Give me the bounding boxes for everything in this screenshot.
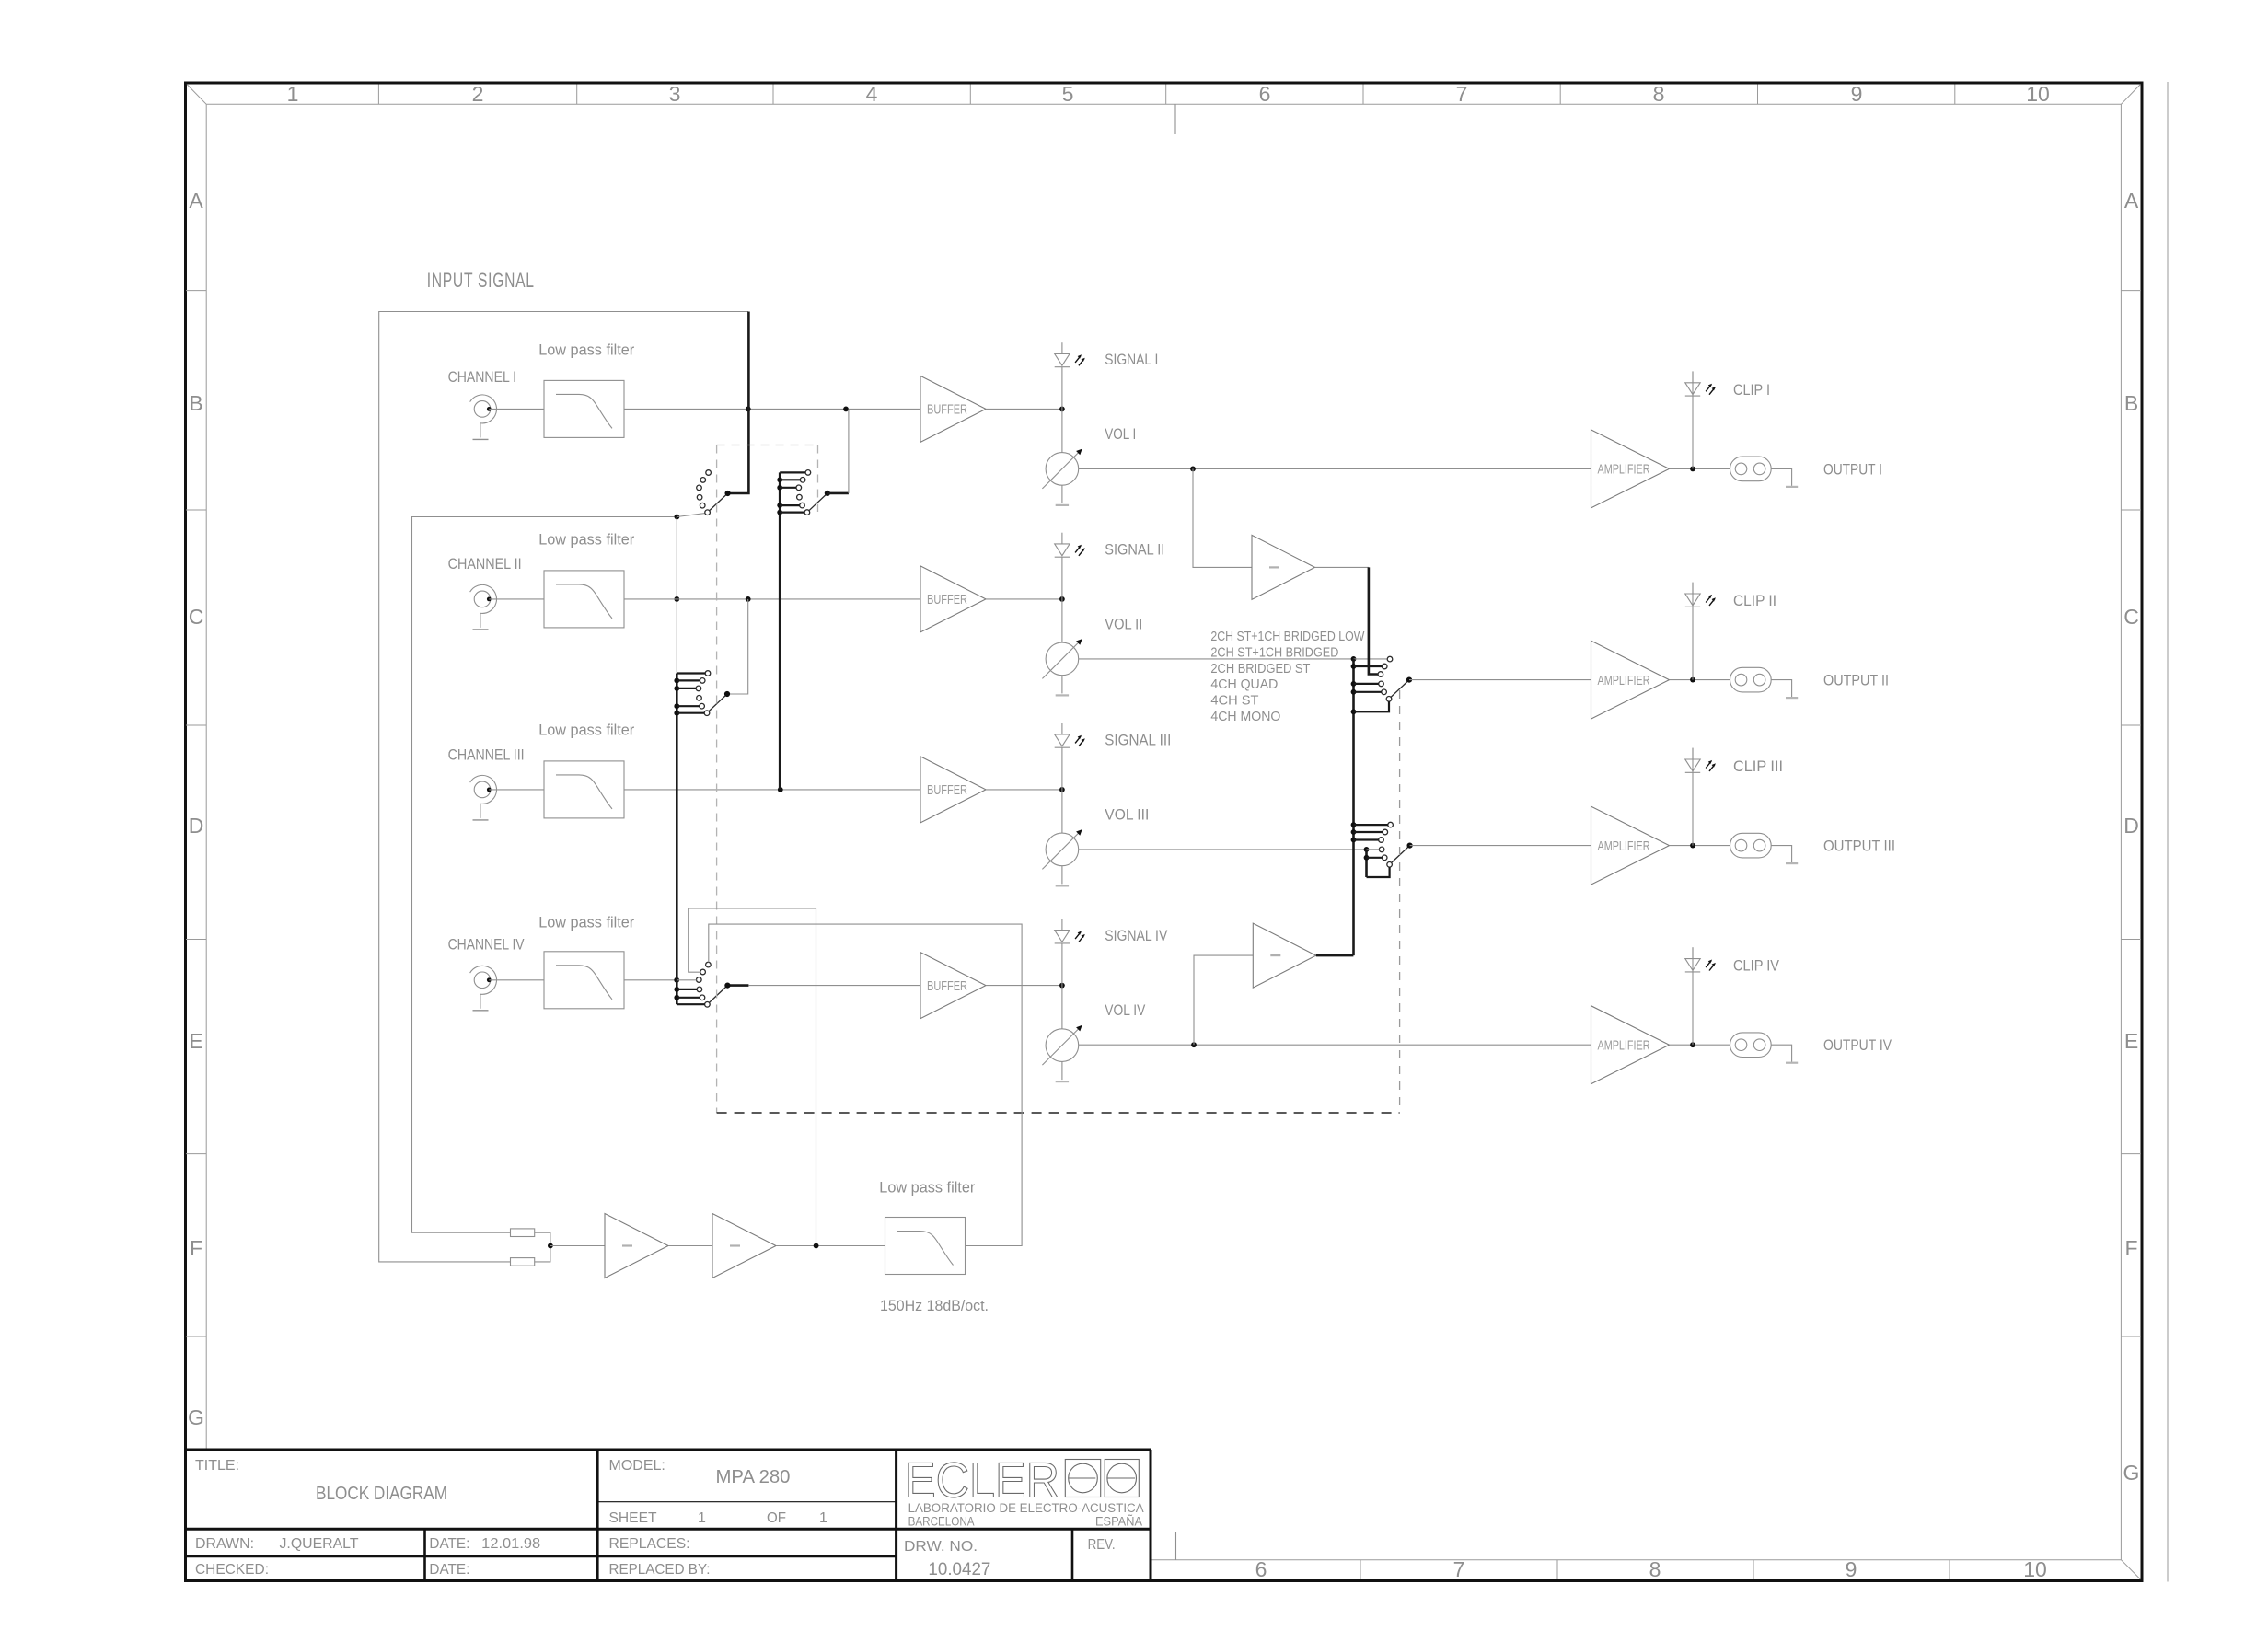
LED SIGNAL I [1055,342,1085,367]
branch S6 VOL III down [1365,850,1368,877]
stub S3 contact 6 [674,711,679,716]
svg-text:SHEET: SHEET [609,1510,657,1526]
wire S5 wiper to amplifier II [1409,679,1591,681]
sheet edge line right [2167,82,2169,1582]
wire output II to ground [1771,680,1791,698]
svg-text:1: 1 [698,1510,706,1526]
svg-text:150Hz 18dB/oct.: 150Hz 18dB/oct. [880,1298,989,1314]
svg-text:A: A [189,189,203,213]
svg-text:C: C [189,605,204,629]
svg-text:J.QUERALT: J.QUERALT [280,1536,359,1552]
wire channel II top edge to S1 contact [677,514,705,517]
stub S4 contact 3 (from channel IV filter) [677,979,696,981]
svg-text:BUFFER: BUFFER [927,979,967,994]
wire S2 wiper to channel I (stub) [827,492,849,495]
svg-text:2CH ST+1CH BRIDGED: 2CH ST+1CH BRIDGED [1210,645,1338,660]
svg-text:BUFFER: BUFFER [927,593,967,607]
svg-text:CLIP II: CLIP II [1733,593,1776,609]
svg-text:DATE:: DATE: [429,1536,469,1552]
junction amplifier III output / clip LED [1690,843,1695,849]
rotary switch S4 (buffer IV source select) contacts [697,962,712,1007]
svg-text:VOL III: VOL III [1105,806,1149,823]
resistor R2 (channel I sum) [511,1258,535,1266]
svg-text:SIGNAL I: SIGNAL I [1105,352,1158,368]
svg-text:10.0427: 10.0427 [928,1560,990,1579]
stub S2 contact 2 [777,477,782,482]
rotary switch S1 (channel I select) contacts [697,470,712,515]
wire sum node to amp C [550,1245,605,1247]
svg-text:VOL I: VOL I [1105,426,1136,443]
junction channel II wire [674,596,679,602]
stub S6 contact 1 [1351,822,1357,827]
hook S6 branch to contact 6 [1367,867,1390,877]
fold mark top centre [1174,104,1176,134]
bus mode switch (VOL II / bridge B) [1352,659,1355,955]
svg-text:2CH BRIDGED ST: 2CH BRIDGED ST [1210,662,1310,676]
svg-text:6: 6 [1259,82,1271,106]
svg-text:4CH QUAD: 4CH QUAD [1210,677,1278,692]
wire S4 wiper to buffer IV [748,985,920,987]
junction channel I / selector riser [746,407,751,412]
connector JIV (RCA jack) [470,966,497,1010]
amplifier buffer U-IV [920,953,986,1019]
fold mark bottom centre [1175,1532,1177,1560]
svg-text:AMPLIFIER: AMPLIFIER [1598,674,1650,688]
wire VOL IV to amplifier IV [1079,1044,1591,1046]
svg-text:REPLACED BY:: REPLACED BY: [609,1562,711,1578]
junction amplifier IV output / clip LED [1690,1042,1695,1047]
rotary switch S3 (buffer II source select) wiper lever [709,691,730,711]
svg-text:5: 5 [1062,82,1074,106]
wire bridge amp A output riser to S5 contact 3 [1369,567,1378,674]
junction buffer I output / LED / pot [1059,407,1065,412]
grid ticks top band [378,85,1954,105]
svg-text:MPA 280: MPA 280 [716,1467,791,1487]
mode list text [1210,630,1364,724]
connector JI (RCA jack) [470,395,497,439]
rotary switch S2 (buffer I source select) contacts [796,470,811,515]
wire resistors to sum node [535,1232,550,1262]
svg-text:8: 8 [1653,82,1665,106]
svg-text:10: 10 [2026,82,2050,106]
border frame inner [206,104,2121,1559]
potentiometer VOL I [1042,449,1082,489]
svg-text:OUTPUT II: OUTPUT II [1823,673,1889,689]
junction VOL I / bridge amp A branch [1190,467,1196,472]
svg-text:E: E [2124,1029,2138,1053]
wire channel II box (top edge and left edge) [412,517,677,1233]
svg-text:CLIP I: CLIP I [1733,382,1770,399]
wire amplifier III output [1670,845,1730,847]
wire amplifier II output [1670,679,1730,681]
LED CLIP I [1685,372,1716,397]
low pass filter block LP-SUB [885,1218,966,1275]
grid numbers bottom 6-10 [1255,1557,2047,1581]
svg-text:CHANNEL II: CHANNEL II [448,556,522,572]
stub S2 contact 5 [777,503,782,508]
wire bridge amp B output [1316,954,1354,957]
svg-text:G: G [2123,1461,2140,1485]
ground of VOL II [1056,676,1069,696]
bus S3/S4 (channel II feed) [676,674,678,1005]
wire output I to ground [1771,468,1791,486]
svg-text:BARCELONA: BARCELONA [908,1515,975,1529]
wire channel I thick riser to switch S1 [728,312,749,494]
stub S3 contact 5 [674,703,679,709]
amplifier sum inverter C [605,1214,668,1278]
wire VOL III to S6 contact 4 [1079,849,1380,850]
junction buffer III output / LED / pot [1059,787,1065,792]
dashed enclosure bottom edge [717,1112,1400,1114]
output connector II (speaker terminal) [1730,667,1772,692]
wire bridge amp A output [1315,566,1369,568]
wire clip LED III vertical [1692,748,1694,846]
svg-text:MODEL:: MODEL: [609,1458,665,1474]
potentiometer VOL IV [1042,1025,1082,1065]
stub S6 contact 2 [1351,829,1357,835]
svg-text:Low pass filter: Low pass filter [538,915,634,931]
svg-text:INPUT SIGNAL: INPUT SIGNAL [427,269,535,292]
wire buffer III output [986,789,1062,791]
junction amplifier II output / clip LED [1690,677,1695,683]
stub S6 contact 3 [1351,838,1357,843]
wire feedback loop S4 contact 2 to filter input [688,908,816,1246]
junction feedback / filter input [814,1243,819,1249]
rotary switch S6 (amplifier III mode select) wiper lever [1392,843,1413,863]
junction VOL IV / bridge amp B branch [1191,1042,1197,1047]
svg-text:1: 1 [819,1510,827,1526]
amplifier bridge inverter B [1253,923,1316,988]
wire VOL II to mode bus [1079,658,1354,660]
svg-text:A: A [2124,189,2139,213]
wire filter output loop to S4 contact 1 [709,924,1022,1245]
wire LED-pot vertical II [1061,557,1063,642]
LED SIGNAL III [1055,723,1085,748]
amplifier buffer U-III [920,757,986,823]
svg-text:Low pass filter: Low pass filter [538,723,634,739]
stub S2 contact 6 [777,510,782,515]
output connector III (speaker terminal) [1730,833,1772,858]
wire channel IV filter output to S4 bus [624,979,677,981]
rotary switch S3 (buffer II source select) contacts [696,671,711,716]
connector JIII (RCA jack) [470,775,497,819]
amplifier buffer U-I [920,376,986,442]
svg-text:6: 6 [1255,1557,1267,1581]
wire S3 wiper riser to channel II [727,599,748,694]
grid letters right A-G [2123,189,2140,1485]
amplifier power amplifier II [1591,641,1670,719]
svg-text:F: F [2124,1236,2137,1260]
amplifier power amplifier III [1591,806,1670,885]
svg-text:AMPLIFIER: AMPLIFIER [1598,1038,1650,1053]
svg-text:OUTPUT III: OUTPUT III [1823,838,1895,855]
junction amplifier I output / clip LED [1690,467,1695,472]
potentiometer VOL III [1042,829,1082,869]
junction VOL II / mode bus [1351,656,1357,662]
svg-text:CLIP III: CLIP III [1733,758,1783,775]
border frame outer [186,83,2143,1581]
wire LED-pot vertical III [1061,747,1063,833]
svg-text:G: G [188,1405,204,1429]
svg-text:LABORATORIO DE ELECTRO-ACUST: LABORATORIO DE ELECTRO-ACUSTICA [908,1501,1144,1515]
bus S2 (to channel III) [779,472,781,790]
ground of VOL IV [1056,1061,1069,1081]
amplifier bridge inverter A [1252,535,1315,599]
wire channel I filter output to buffer I [624,408,920,410]
stub S6 contact 5 [1364,855,1370,861]
logo emblem square 2 [1105,1460,1139,1497]
wire output IV to ground [1771,1045,1791,1062]
svg-text:VOL IV: VOL IV [1105,1002,1145,1019]
svg-text:CHANNEL III: CHANNEL III [448,747,525,764]
title block frame [184,1450,1151,1581]
wire clip LED IV vertical [1692,947,1694,1045]
svg-text:DATE:: DATE: [429,1562,469,1578]
svg-text:3: 3 [669,82,681,106]
svg-text:7: 7 [1453,1557,1465,1581]
svg-text:OF: OF [767,1510,786,1526]
rotary switch S5 (amplifier II mode select) contacts [1378,656,1393,701]
amplifier sum inverter D [712,1214,776,1278]
potentiometer VOL II [1042,639,1082,678]
wire connector III to filter [489,789,544,791]
svg-text:10: 10 [2023,1557,2047,1581]
grid ticks right band [2121,291,2141,1336]
svg-text:BUFFER: BUFFER [927,783,967,798]
junction channel IV / S4 bus [674,977,679,983]
wire connector I to filter [489,408,544,410]
ground output IV [1786,1062,1798,1064]
svg-text:CHANNEL I: CHANNEL I [448,369,516,386]
amplifier buffer U-II [920,566,986,632]
ground of VOL I [1056,485,1069,505]
stub S2 contact 3 [777,485,782,491]
wire connector II to filter [489,598,544,600]
svg-text:8: 8 [1649,1557,1661,1581]
svg-text:2: 2 [472,82,484,106]
wire amp D to low pass filter [776,1245,885,1247]
svg-text:Low pass filter: Low pass filter [538,342,634,359]
amplifier power amplifier I [1591,430,1670,508]
svg-text:CLIP IV: CLIP IV [1733,958,1779,975]
rotary switch S6 (amplifier III mode select) contacts [1379,822,1394,867]
svg-text:REPLACES:: REPLACES: [609,1536,690,1552]
dashed enclosure right edge lower [1399,690,1401,1113]
svg-text:B: B [189,391,202,415]
wire VOL I branch down to bridge amp A [1193,468,1252,567]
svg-text:TITLE:: TITLE: [195,1458,239,1474]
svg-text:OUTPUT I: OUTPUT I [1823,461,1882,478]
wire buffer IV output [986,985,1062,987]
svg-text:VOL II: VOL II [1105,616,1142,632]
grid ticks left band [186,291,206,1336]
bus S4 bottom bend to contact 6 [677,1003,704,1005]
wire buffer I output [986,408,1062,410]
svg-text:Low pass filter: Low pass filter [879,1180,975,1197]
LED CLIP III [1685,748,1716,773]
junction sum node [548,1243,553,1249]
wire S4 wiper to buffer IV (thick part) [727,984,748,987]
wire amplifier I output [1670,468,1730,469]
junction channel I / S2 wiper riser [843,407,849,412]
grid letters left A-G [188,189,204,1429]
stub S3 contact 2 [674,678,679,684]
svg-text:AMPLIFIER: AMPLIFIER [1598,463,1650,478]
junction buffer IV output / LED / pot [1059,983,1065,989]
svg-text:OUTPUT IV: OUTPUT IV [1823,1037,1892,1054]
svg-text:9: 9 [1851,82,1863,106]
rotary switch S1 (channel I select) wiper lever [710,491,731,511]
ground output I [1786,486,1798,488]
svg-text:D: D [2123,814,2139,838]
svg-text:CHANNEL IV: CHANNEL IV [448,937,525,954]
svg-text:DRW. NO.: DRW. NO. [904,1539,978,1555]
border corner diagonals [187,85,2141,1580]
stub S4 contact 5 [674,995,679,1000]
wire amp C to amp D [668,1245,712,1247]
svg-text:BUFFER: BUFFER [927,403,967,418]
stub S5 contact 5 [1351,689,1357,695]
wire mode bus to S5 contact 1 [1354,658,1388,660]
svg-text:SIGNAL IV: SIGNAL IV [1105,928,1167,944]
wire output III to ground [1771,846,1791,863]
svg-text:9: 9 [1846,1557,1857,1581]
ground of VOL III [1056,866,1069,886]
amplifier power amplifier IV [1591,1006,1670,1084]
wire S6 wiper to amplifier III [1410,845,1591,847]
svg-text:CHECKED:: CHECKED: [195,1562,269,1578]
resistor R1 (channel II sum) [511,1229,535,1237]
wire VOL I to amplifier I [1079,468,1591,469]
wire input-signal loop (top edge and left edge) [379,312,748,1262]
LED SIGNAL IV [1055,919,1085,943]
svg-text:BLOCK DIAGRAM: BLOCK DIAGRAM [316,1484,447,1504]
dashed enclosure left edge [716,445,718,1114]
grid ticks bottom band [1360,1560,1950,1579]
svg-text:12.01.98: 12.01.98 [481,1536,540,1552]
wire VOL IV branch up to bridge amp B [1194,955,1253,1045]
connector JII (RCA jack) [470,584,497,629]
LED CLIP II [1685,583,1716,607]
ground output III [1786,862,1798,864]
svg-text:AMPLIFIER: AMPLIFIER [1598,839,1650,854]
svg-text:D: D [189,814,204,838]
wire channel II feed down to S3/S4 bus [676,517,677,674]
stub S6 contact 4 from VOL III [1367,849,1380,850]
svg-text:4CH MONO: 4CH MONO [1210,710,1280,724]
dashed enclosure top edge [717,445,818,446]
grid numbers top 1-10 [287,82,2050,106]
svg-text:B: B [2124,391,2138,415]
stub S3 contact 3 [674,686,679,691]
dashed enclosure right edge upper [817,445,819,513]
wire S2 wiper riser [848,409,850,493]
svg-text:1: 1 [287,82,299,106]
wire LED-pot vertical I [1061,367,1063,453]
wire channel II filter output to buffer II [624,598,920,600]
rotary switch S4 (buffer IV source select) wiper lever [709,983,730,1003]
svg-text:ECLER: ECLER [905,1453,1059,1509]
junction channel III / S2 bus [778,787,783,792]
stub S5 contact 2 [1351,664,1357,669]
low pass filter block IV [544,952,624,1009]
svg-text:SIGNAL III: SIGNAL III [1105,732,1171,748]
svg-text:C: C [2123,605,2139,629]
svg-text:ESPAÑA: ESPAÑA [1095,1515,1142,1529]
svg-text:REV.: REV. [1088,1537,1116,1553]
bus S2 top bend to contact 1 [780,471,805,473]
wire buffer II output [986,598,1062,600]
svg-text:E: E [189,1029,202,1053]
stub S5 contact 4 [1351,681,1357,687]
wire connector IV to filter [489,979,544,981]
wire clip LED II vertical [1692,583,1694,680]
wire channel III filter output to buffer III [624,789,920,791]
svg-text:Low pass filter: Low pass filter [538,532,634,549]
logo emblem square 1 [1065,1460,1100,1497]
LED CLIP IV [1685,947,1716,972]
low pass filter block II [544,571,624,628]
output connector I (speaker terminal) [1730,457,1772,481]
low pass filter block I [544,380,624,437]
output connector IV (speaker terminal) [1730,1033,1772,1058]
wire amplifier IV output [1670,1044,1730,1046]
svg-text:2CH ST+1CH BRIDGED LOW: 2CH ST+1CH BRIDGED LOW [1210,630,1364,644]
stub S4 contact 4 [674,987,679,992]
junction channel II / S3 riser [746,596,751,602]
wire clip LED I vertical [1692,371,1694,468]
junction VOL III / S6 branch [1364,847,1370,852]
svg-text:SIGNAL II: SIGNAL II [1105,541,1164,558]
junction channel II top edge [675,515,680,520]
bus S3 top bend to contact 1 [677,672,705,674]
rotary switch S2 (buffer I source select) wiper lever [809,491,830,511]
LED SIGNAL II [1055,533,1085,558]
hook S5 bus to contact 6 [1351,709,1357,714]
junction buffer II output / LED / pot [1059,596,1065,602]
wire LED-pot vertical IV [1061,943,1063,1029]
svg-text:4: 4 [866,82,878,106]
rotary switch S5 (amplifier II mode select) wiper lever [1391,677,1412,698]
svg-text:F: F [190,1236,202,1260]
ground output II [1786,697,1798,699]
svg-text:7: 7 [1456,82,1468,106]
svg-text:4CH ST: 4CH ST [1210,694,1258,709]
svg-text:DRAWN:: DRAWN: [195,1536,254,1552]
low pass filter block III [544,761,624,818]
